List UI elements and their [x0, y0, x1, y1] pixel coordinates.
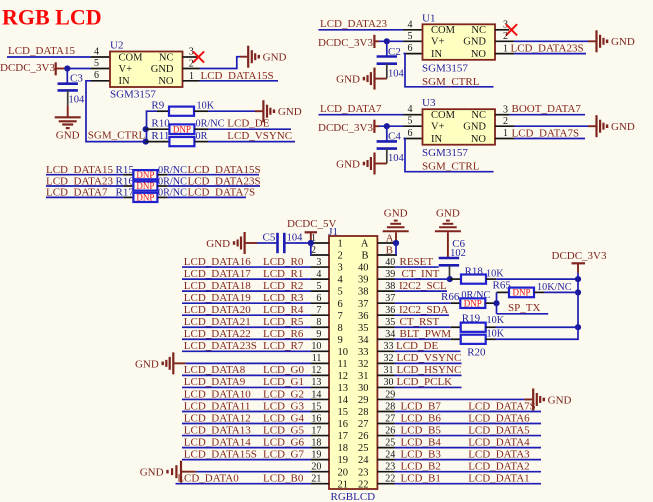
J1 internal pin names: [338, 239, 370, 491]
svg-text:LCD_DATA23S: LCD_DATA23S: [511, 42, 584, 54]
wire J1 pin 9 net LCD_DATA22: [182, 338, 311, 340]
svg-text:LCD_G1: LCD_G1: [263, 376, 304, 388]
connector J1 body RGBLCD: [329, 236, 377, 489]
wire R18 to DCDC_3V3: [496, 278, 578, 280]
svg-text:23: 23: [385, 461, 395, 472]
svg-text:LCD_DATA15S: LCD_DATA15S: [184, 448, 257, 460]
junction node DCDC_5V / J1 pin 1: [308, 240, 314, 246]
svg-text:10K: 10K: [197, 101, 215, 112]
svg-text:GND: GND: [140, 467, 164, 479]
svg-text:4: 4: [316, 269, 321, 280]
ground under C3: [55, 116, 81, 118]
svg-text:5: 5: [316, 281, 321, 292]
svg-text:C5: C5: [263, 232, 276, 244]
wire J1 pin 5 net LCD_DATA18: [182, 290, 311, 292]
svg-text:6: 6: [316, 293, 321, 304]
svg-text:DCDC_3V3: DCDC_3V3: [318, 122, 374, 134]
svg-text:28: 28: [385, 401, 395, 412]
svg-text:31: 31: [384, 365, 394, 376]
svg-text:V+: V+: [119, 64, 133, 75]
svg-text:13: 13: [338, 383, 349, 394]
pin 2 of U2: [183, 68, 200, 70]
svg-text:LCD_DATA2: LCD_DATA2: [468, 460, 529, 472]
svg-text:1: 1: [189, 71, 194, 82]
svg-text:CT_RST: CT_RST: [400, 316, 440, 328]
wire U2 pin 4 net LCD_DATA15: [7, 56, 91, 58]
pin 6 of U2: [91, 80, 110, 82]
svg-text:5: 5: [408, 116, 413, 127]
pin of C2 to ground: [386, 64, 388, 79]
svg-text:NO: NO: [471, 49, 487, 60]
wire J1 pin 4 net LCD_DATA17: [182, 278, 311, 280]
svg-text:LCD_DATA9: LCD_DATA9: [184, 376, 246, 388]
svg-text:15: 15: [338, 407, 349, 418]
resistor R65 (DNP): [497, 291, 510, 293]
svg-text:LCD_R7: LCD_R7: [263, 340, 304, 352]
svg-text:32: 32: [358, 359, 369, 370]
resistor R9: [157, 110, 169, 112]
svg-text:SGM3157: SGM3157: [422, 147, 468, 159]
svg-text:12: 12: [311, 365, 321, 376]
svg-text:36: 36: [385, 305, 395, 316]
svg-text:NO: NO: [158, 76, 174, 87]
svg-text:U1: U1: [422, 12, 435, 24]
ground at C4: [373, 153, 375, 175]
svg-text:16: 16: [311, 413, 321, 424]
resistor R66 (DNP): [451, 302, 461, 304]
svg-text:DCDC_5V: DCDC_5V: [287, 218, 337, 230]
svg-text:5: 5: [94, 58, 99, 69]
wire J1 pin 38: [395, 290, 448, 292]
svg-text:NO: NO: [471, 134, 487, 145]
svg-text:LCD_B7: LCD_B7: [401, 400, 442, 412]
pin 4 of U2: [91, 56, 110, 58]
svg-text:36: 36: [358, 311, 369, 322]
svg-text:NC: NC: [159, 52, 174, 63]
svg-text:102: 102: [450, 248, 466, 259]
svg-text:14: 14: [338, 395, 349, 406]
wire LCD_DATA7 to R17: [46, 196, 123, 198]
svg-text:SGM_CTRL: SGM_CTRL: [88, 129, 146, 141]
analog switch U1 body SGM3157: [423, 24, 496, 60]
svg-text:GND: GND: [611, 121, 635, 133]
wire J1 pin 31: [395, 374, 462, 376]
capacitor C5: [267, 242, 277, 244]
svg-text:10K/NC: 10K/NC: [537, 282, 572, 293]
pin of C6 to CT_INT: [449, 265, 451, 279]
svg-text:LCD_DATA21: LCD_DATA21: [184, 316, 251, 328]
svg-text:IN: IN: [431, 134, 442, 145]
svg-text:LCD_DATA14: LCD_DATA14: [184, 436, 251, 448]
lead from ground to J1 pin 20: [182, 471, 196, 473]
svg-text:LCD_G2: LCD_G2: [263, 388, 304, 400]
svg-text:LCD_DATA0: LCD_DATA0: [177, 473, 239, 485]
svg-text:4: 4: [408, 104, 413, 115]
svg-text:9: 9: [338, 335, 343, 346]
svg-text:22: 22: [358, 479, 369, 490]
analog switch U3 body SGM3157: [423, 109, 496, 145]
svg-text:LCD_B2: LCD_B2: [401, 460, 441, 472]
svg-text:7: 7: [338, 311, 343, 322]
wire J1 pin 25: [395, 447, 542, 449]
capacitor C4: [377, 140, 397, 143]
wire U2 pin 5: [64, 68, 91, 70]
svg-text:LCD_DATA7: LCD_DATA7: [320, 103, 382, 115]
wire LCD_DATA23 to R16: [46, 185, 123, 187]
svg-text:R9: R9: [151, 100, 164, 112]
svg-text:11: 11: [312, 353, 322, 364]
svg-text:LCD_DATA13: LCD_DATA13: [184, 424, 251, 436]
lead ground to J1 pin A: [395, 232, 397, 243]
wire J1 pin 1 to pin 2: [310, 243, 312, 255]
svg-text:18: 18: [338, 443, 349, 454]
svg-text:33: 33: [384, 341, 394, 352]
svg-text:4: 4: [408, 19, 413, 30]
lead from ground to C5: [246, 242, 258, 244]
svg-text:LCD_B4: LCD_B4: [401, 436, 442, 448]
wire J1 pin 33: [395, 350, 461, 352]
svg-text:LCD_DATA15: LCD_DATA15: [8, 45, 75, 57]
resistor R16 (DNP): [123, 185, 133, 187]
svg-text:LCD_R3: LCD_R3: [263, 292, 304, 304]
wire J1 pin 28: [395, 410, 542, 412]
svg-text:27: 27: [358, 419, 369, 430]
resistor R11: [146, 141, 170, 143]
svg-text:1: 1: [338, 239, 343, 250]
pin 2 of U3: [495, 125, 514, 127]
svg-text:R66: R66: [441, 291, 460, 303]
wire U1 pin 1 net LCD_DATA23S: [514, 53, 586, 55]
svg-text:NC: NC: [471, 25, 486, 36]
svg-text:DCDC_3V3: DCDC_3V3: [552, 250, 608, 262]
svg-text:SP_TX: SP_TX: [508, 302, 540, 314]
svg-text:29: 29: [358, 395, 369, 406]
svg-text:LCD_G0: LCD_G0: [263, 364, 304, 376]
junction node C6 / CT_INT: [447, 276, 453, 282]
ground at C5: [244, 232, 246, 254]
wire C5 to DCDC_5V junction: [295, 242, 312, 244]
svg-text:2: 2: [311, 245, 316, 256]
svg-text:R10: R10: [151, 117, 170, 129]
svg-text:0R/NC: 0R/NC: [196, 118, 225, 129]
svg-text:GND: GND: [611, 36, 635, 48]
svg-text:LCD_R2: LCD_R2: [263, 280, 303, 292]
svg-text:LCD_DATA6: LCD_DATA6: [468, 412, 530, 424]
svg-text:37: 37: [385, 293, 395, 304]
lead to ground (U3 pin 2): [588, 125, 596, 127]
wire J1 pin 18 net LCD_DATA14: [182, 447, 311, 449]
J1 left pin stubs: [311, 233, 329, 485]
svg-text:NC: NC: [471, 110, 486, 121]
wire R16 net LCD_DATA23S: [167, 185, 260, 187]
svg-text:LCD_DATA22: LCD_DATA22: [184, 328, 251, 340]
svg-text:30: 30: [358, 383, 369, 394]
svg-text:DNP: DNP: [136, 181, 154, 191]
svg-text:B: B: [386, 244, 393, 256]
svg-text:LCD_DATA18: LCD_DATA18: [184, 280, 251, 292]
svg-text:CT_INT: CT_INT: [402, 268, 440, 280]
svg-text:LCD_VSYNC: LCD_VSYNC: [397, 352, 462, 364]
svg-text:GND: GND: [151, 64, 174, 75]
wire U1 pin 5: [379, 40, 404, 42]
svg-text:LCD_R1: LCD_R1: [263, 268, 303, 280]
svg-text:8: 8: [316, 317, 321, 328]
svg-text:C4: C4: [388, 131, 401, 143]
svg-text:6: 6: [338, 299, 343, 310]
svg-text:IN: IN: [119, 76, 130, 87]
pin 1 of U3: [495, 138, 514, 140]
junction DCDC_3V3 / R18: [575, 276, 581, 282]
svg-text:8: 8: [338, 323, 343, 334]
svg-text:104: 104: [69, 95, 86, 106]
svg-text:R20: R20: [467, 346, 486, 358]
svg-text:SGM_CTRL: SGM_CTRL: [422, 161, 480, 173]
svg-text:COM: COM: [431, 110, 456, 121]
svg-text:LCD_G7: LCD_G7: [263, 448, 304, 460]
ground at U1 pin 2: [595, 30, 597, 52]
wire U3 pin 3 net BOOT_DATA7: [509, 114, 585, 116]
svg-text:26: 26: [385, 425, 395, 436]
wire ground to C5: [257, 242, 267, 244]
svg-text:10K: 10K: [486, 269, 504, 280]
svg-text:LCD_B1: LCD_B1: [401, 473, 441, 485]
resistor R10 (DNP): [146, 128, 170, 130]
svg-text:LCD_DATA8: LCD_DATA8: [184, 364, 246, 376]
svg-text:LCD_DATA4: LCD_DATA4: [468, 436, 530, 448]
svg-text:DCDC_3V3: DCDC_3V3: [318, 37, 374, 49]
svg-text:3: 3: [338, 263, 343, 274]
svg-text:33: 33: [358, 347, 369, 358]
svg-text:LCD_G5: LCD_G5: [263, 424, 304, 436]
svg-text:4: 4: [94, 47, 99, 58]
wire U1 pin 6 to SGM_CTRL: [404, 53, 406, 55]
pin 3 of U1: [495, 29, 509, 31]
pin 1 of U1: [495, 53, 514, 55]
wire net SP_TX: [497, 313, 549, 315]
svg-text:4: 4: [338, 275, 344, 286]
svg-text:DNP: DNP: [136, 170, 154, 180]
wire J1 pin 32: [395, 362, 462, 364]
wire J1 pin 15 net LCD_DATA11: [182, 410, 311, 412]
svg-text:DCDC_3V3: DCDC_3V3: [0, 62, 56, 74]
junction node J1 pin A: [393, 240, 399, 246]
wire U3 pin 5: [379, 125, 404, 127]
wire J1 pin 11 to GND: [185, 362, 311, 364]
svg-text:LCD_DATA10: LCD_DATA10: [184, 388, 251, 400]
pin 4 of U3: [404, 114, 423, 116]
capacitor C2: [377, 55, 397, 58]
wire R15 net LCD_DATA15S: [167, 174, 259, 176]
svg-text:2: 2: [503, 116, 508, 127]
junction node DCDC_3V3 / C2: [384, 38, 390, 44]
svg-text:16: 16: [338, 419, 349, 430]
pin 6 of U1: [404, 53, 423, 55]
svg-text:28: 28: [358, 407, 369, 418]
svg-text:GND: GND: [56, 130, 80, 142]
ground at U2 pin 2: [247, 46, 249, 68]
wire J1 pin 35: [395, 326, 451, 328]
svg-text:18: 18: [311, 437, 321, 448]
svg-text:104: 104: [388, 153, 405, 164]
svg-text:LCD_R4: LCD_R4: [263, 304, 304, 316]
svg-text:37: 37: [358, 299, 369, 310]
pin 5 of U1: [404, 40, 423, 42]
svg-text:LCD_B6: LCD_B6: [401, 412, 442, 424]
svg-text:DNP: DNP: [512, 288, 530, 298]
lead from ground to J1 pin 11: [174, 362, 185, 364]
svg-text:3: 3: [316, 257, 321, 268]
svg-text:9: 9: [316, 329, 321, 340]
svg-text:I2C2_SDA: I2C2_SDA: [399, 304, 449, 316]
svg-text:V+: V+: [431, 37, 445, 48]
svg-text:LCD_G6: LCD_G6: [263, 436, 304, 448]
pin 5 of U3: [404, 125, 423, 127]
svg-text:5: 5: [408, 31, 413, 42]
resistor R18: [450, 278, 461, 280]
ground at J1 pin 29: [532, 388, 534, 410]
wire J1 pin 3 net LCD_DATA16: [182, 266, 311, 268]
svg-text:38: 38: [385, 281, 395, 292]
svg-text:R19: R19: [462, 313, 481, 325]
ground at U3 pin 2: [595, 115, 597, 137]
wire J1 pin 19 net LCD_DATA15S: [182, 459, 311, 461]
pin 4 of U1: [404, 29, 423, 31]
svg-text:15: 15: [311, 401, 321, 412]
wire R65 to DCDC_3V3: [544, 291, 578, 293]
svg-text:COM: COM: [119, 52, 144, 63]
wire J1 pin 13 net LCD_DATA9: [182, 386, 311, 388]
wire U3 pin 1 net LCD_DATA7S: [514, 138, 585, 140]
svg-text:LCD_DATA16: LCD_DATA16: [184, 256, 251, 268]
svg-text:U2: U2: [110, 40, 123, 52]
J1 right pin stubs: [377, 243, 397, 484]
wire J1 pin 12 net LCD_DATA8: [182, 374, 311, 376]
junction node SGM_CTRL / R11: [143, 139, 149, 145]
svg-text:10K: 10K: [487, 329, 505, 340]
wire J1 pin 6 net LCD_DATA19: [182, 302, 311, 304]
wire J1 pin 30: [395, 386, 462, 388]
svg-text:I2C2_SCL: I2C2_SCL: [399, 280, 447, 292]
wire junction to C4: [386, 126, 388, 141]
svg-text:R11: R11: [151, 130, 169, 142]
wire SGM_CTRL vertical to R9: [147, 111, 158, 141]
svg-text:30: 30: [384, 377, 394, 388]
svg-text:IN: IN: [431, 49, 442, 60]
wire J1 pin 36: [395, 314, 450, 316]
wire J1 pin 34: [395, 338, 451, 340]
wire U2 pin 1 net LCD_DATA15S: [200, 80, 279, 82]
wire J1 pin 23: [395, 471, 542, 473]
ground at J1 pin 11: [172, 352, 174, 374]
svg-text:25: 25: [358, 443, 369, 454]
svg-text:SGM3157: SGM3157: [110, 89, 156, 101]
wire J1 pin 7 net LCD_DATA20: [182, 314, 311, 316]
svg-text:1: 1: [503, 43, 508, 54]
svg-text:C3: C3: [70, 73, 83, 85]
wire U1 pin 2 to GND: [514, 40, 588, 42]
wire J1 pin 16 net LCD_DATA12: [182, 423, 311, 425]
svg-text:LCD_DATA7S: LCD_DATA7S: [512, 127, 580, 139]
junction DCDC_3V3 / R65: [575, 289, 581, 295]
svg-text:RGBLCD: RGBLCD: [331, 491, 376, 502]
resistor R17 (DNP): [123, 196, 133, 198]
svg-text:LCD_DATA7S: LCD_DATA7S: [468, 400, 536, 412]
svg-text:34: 34: [358, 335, 369, 346]
svg-text:LCD_R6: LCD_R6: [263, 328, 304, 340]
svg-text:GND: GND: [135, 358, 159, 370]
lead to ground (U2 pin 2): [240, 56, 247, 58]
junction node SP_TX: [493, 300, 499, 306]
svg-text:GND: GND: [436, 208, 460, 220]
svg-text:LCD_VSYNC: LCD_VSYNC: [227, 130, 292, 142]
svg-text:LCD_DATA20: LCD_DATA20: [184, 304, 251, 316]
svg-text:GND: GND: [463, 122, 486, 133]
svg-text:LCD_DATA5: LCD_DATA5: [468, 424, 530, 436]
svg-text:14: 14: [311, 389, 321, 400]
ground above J1 pin A: [383, 230, 409, 232]
svg-text:24: 24: [358, 455, 369, 466]
wire J1 pin 20 to GND: [196, 471, 311, 473]
svg-text:BOOT_DATA7: BOOT_DATA7: [512, 103, 582, 115]
svg-text:19: 19: [311, 449, 321, 460]
pin 6 of U3: [404, 138, 423, 140]
svg-text:29: 29: [385, 389, 395, 400]
pin 3 of U2: [183, 56, 198, 58]
ground at J1 pin 20: [180, 461, 182, 483]
pin 5 of U2: [91, 68, 110, 70]
svg-text:C2: C2: [388, 46, 401, 58]
svg-text:5: 5: [338, 287, 343, 298]
wire J1 pin 24: [395, 459, 542, 461]
svg-text:10: 10: [311, 341, 321, 352]
wire R19 to DCDC_3V3: [496, 326, 579, 328]
svg-text:GND: GND: [263, 52, 287, 64]
wire J1 pin 14 net LCD_DATA10: [182, 398, 311, 400]
svg-text:DNP: DNP: [136, 193, 154, 203]
svg-text:GND: GND: [206, 238, 230, 250]
svg-text:V+: V+: [431, 122, 445, 133]
svg-text:12: 12: [338, 371, 349, 382]
svg-text:LCD_DATA23S: LCD_DATA23S: [184, 340, 257, 352]
svg-text:35: 35: [358, 323, 369, 334]
pin of C4 to ground: [386, 149, 388, 164]
wire J1 pin 17 net LCD_DATA13: [182, 435, 311, 437]
svg-text:0R: 0R: [196, 131, 208, 142]
capacitor C3: [58, 82, 78, 85]
svg-text:24: 24: [385, 449, 395, 460]
svg-text:LCD_B3: LCD_B3: [401, 448, 442, 460]
lead to ground (R9): [255, 110, 263, 112]
wire U3 pin 4 net LCD_DATA7: [319, 114, 404, 116]
svg-text:LCD_DATA1: LCD_DATA1: [468, 473, 529, 485]
svg-text:21: 21: [311, 474, 321, 485]
no-connect X on U2 pin 3: [193, 51, 204, 62]
svg-text:39: 39: [385, 269, 395, 280]
wire R11 net LCD_VSYNC: [208, 141, 295, 143]
svg-text:2: 2: [189, 58, 194, 69]
svg-text:17: 17: [311, 425, 321, 436]
svg-text:LCD_DATA3: LCD_DATA3: [468, 448, 530, 460]
svg-text:1: 1: [503, 128, 508, 139]
wire LCD_DATA15 to R15: [46, 174, 123, 176]
wire J1 pin 27: [395, 423, 542, 425]
svg-text:11: 11: [338, 359, 348, 370]
svg-text:17: 17: [338, 431, 349, 442]
svg-text:RGB LCD: RGB LCD: [2, 5, 102, 30]
wire U1 pin 4 net LCD_DATA23: [319, 29, 404, 31]
svg-text:LCD_DATA17: LCD_DATA17: [184, 268, 251, 280]
pin 2 of U1: [495, 40, 514, 42]
